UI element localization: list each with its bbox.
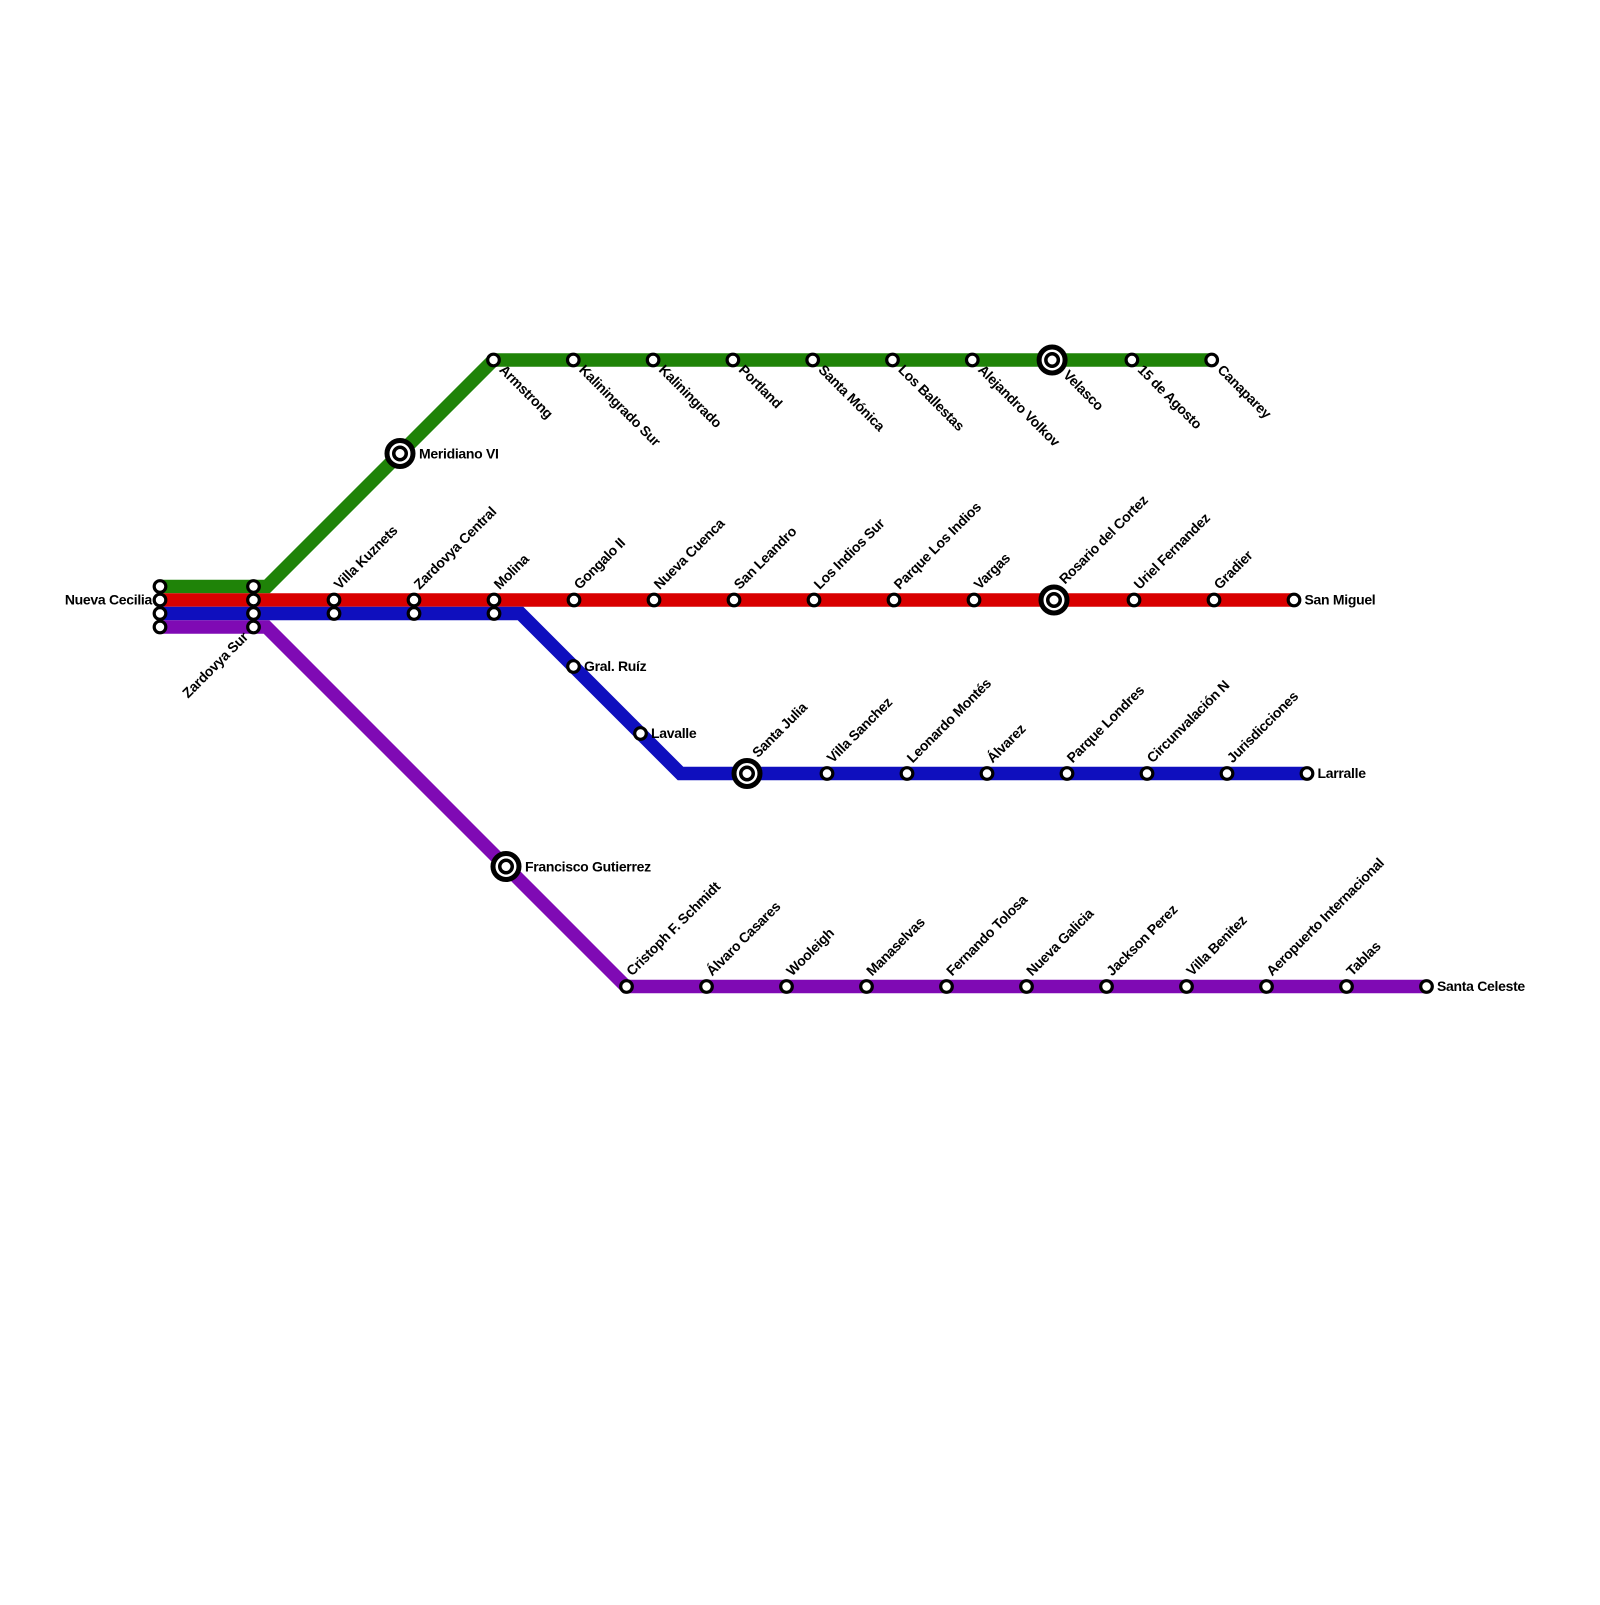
svg-text:Santa Celeste: Santa Celeste [1437,978,1525,994]
svg-text:Francisco Gutierrez: Francisco Gutierrez [525,859,651,875]
svg-text:Gral. Ruíz: Gral. Ruíz [584,658,647,674]
svg-text:Meridiano VI: Meridiano VI [419,446,499,462]
svg-text:San Miguel: San Miguel [1305,592,1376,608]
svg-text:Lavalle: Lavalle [651,725,697,741]
svg-text:Nueva Cecilia: Nueva Cecilia [65,592,153,608]
svg-text:Larralle: Larralle [1318,765,1367,781]
